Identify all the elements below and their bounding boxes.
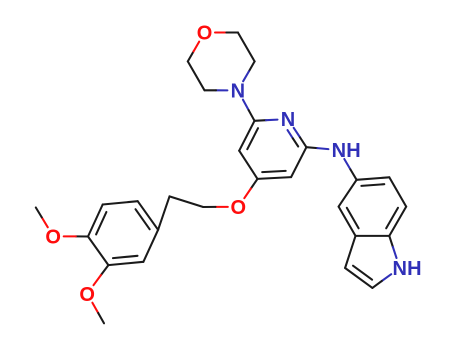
svg-text:N: N <box>231 81 245 103</box>
morpholine bond C5m-C6m <box>188 61 205 90</box>
bond pyridine C4 - ether O <box>251 179 258 189</box>
svg-text:N: N <box>281 109 295 131</box>
bond pyridine C2 - amine N <box>306 146 317 149</box>
benzene double bond C3=C4... <box>88 205 103 237</box>
bond morpholine N - pyridine C6 <box>243 100 249 111</box>
benzene double bond C5=C6 inner line <box>113 256 138 258</box>
pyridine bond C6-N1 <box>255 119 267 122</box>
svg-text:O: O <box>197 23 213 45</box>
bond amine N - indole C5 <box>344 159 350 169</box>
pyridine bond C4-C5 <box>239 151 257 179</box>
indole double bond C7=C7a <box>389 207 406 236</box>
svg-text:O: O <box>231 197 247 219</box>
benzene double bond C5=C6 <box>108 262 143 265</box>
indole double bond C3a=C4 <box>339 207 356 236</box>
morpholine bond O-C2m <box>215 31 226 33</box>
bond ether O - CH2a <box>216 206 228 208</box>
svg-text:O: O <box>79 284 95 306</box>
benzene bond C6-C1 <box>143 230 158 262</box>
indole bond C7a-N1 <box>389 236 393 247</box>
benzene double bond C3=C4... inner line <box>96 212 106 234</box>
pyridine bond C2-C3 <box>291 147 306 177</box>
svg-text:N: N <box>392 258 406 280</box>
indole double bond C5=C6 <box>357 177 390 180</box>
indole bond N1-C2 <box>382 274 391 281</box>
benzene double bond C1=C2 inner line <box>136 209 150 229</box>
bond benzene C5 - methoxy O <box>101 265 109 275</box>
svg-text:H: H <box>346 140 360 162</box>
indole double bond C7=C7a inner line <box>386 208 398 229</box>
pyridine double bond C5=C6 inner line <box>247 128 258 149</box>
benzene bond C2-C3 <box>103 201 138 204</box>
bond methoxy O - CH3 <box>92 303 98 313</box>
morpholine bond C3m-N4m <box>249 61 255 71</box>
bond methoxy O - CH3 <box>42 217 48 227</box>
pyridine double bond N1=C2 inner line <box>288 130 293 138</box>
indole bond C7a-C3a <box>356 235 390 237</box>
benzene bond C4-C5 <box>88 237 108 266</box>
morpholine bond N4m-C5m <box>216 89 227 91</box>
svg-text:N: N <box>332 140 346 162</box>
indole double bond C5=C6 inner line <box>361 184 384 186</box>
benzene double bond C1=C2 <box>138 201 158 230</box>
morpholine bond C2m-C3m <box>238 33 255 62</box>
indole bond C4-C5 <box>339 180 357 207</box>
indole bond C3-C3a <box>345 236 355 268</box>
indole double bond C2=C3 <box>345 268 372 288</box>
pyridine double bond C3=C4 <box>258 177 292 179</box>
svg-text:O: O <box>45 227 61 249</box>
indole double bond C3a=C4 inner line <box>347 208 359 229</box>
indole double bond C2=C3 inner line <box>353 266 372 280</box>
pyridine double bond C3=C4 inner line <box>262 171 286 172</box>
pyridine double bond N1=C2 <box>294 128 300 138</box>
bond benzene C4 - methoxy O <box>76 235 88 237</box>
morpholine bond C6m-O1m <box>188 52 194 62</box>
indole bond C6-C7 <box>389 177 406 206</box>
bond CH2b - benzene C1 <box>158 196 169 229</box>
svg-text:H: H <box>407 258 421 280</box>
pyridine double bond C5=C6 <box>239 121 254 151</box>
bond CH2a-CH2b <box>170 196 204 207</box>
